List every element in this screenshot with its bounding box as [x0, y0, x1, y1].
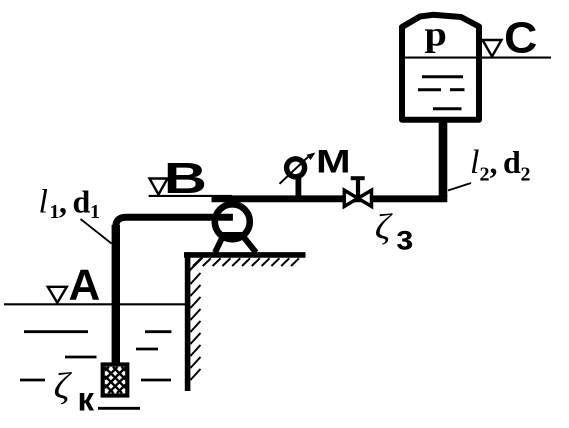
svg-text:к: к	[78, 381, 95, 418]
tank outlet vertical pipe l2	[439, 121, 448, 197]
ground hatching	[193, 258, 299, 266]
water level A line	[4, 303, 185, 305]
wall corner hatch	[188, 258, 203, 273]
label zeta_k	[54, 366, 95, 417]
svg-text:1: 1	[90, 201, 100, 223]
valve right triangle	[358, 190, 372, 206]
gauge needle arrowhead	[307, 153, 316, 161]
svg-text:C: C	[504, 12, 537, 62]
main horizontal pipe	[212, 195, 448, 202]
reservoir water dashes	[20, 332, 171, 409]
leader line to label l1,d1	[81, 219, 112, 244]
ground line	[184, 252, 306, 258]
water level marker C (triangle)	[483, 40, 502, 57]
svg-text:M: M	[316, 143, 351, 179]
wall	[185, 252, 191, 391]
tank body	[402, 15, 479, 120]
svg-text:p: p	[425, 15, 447, 54]
strainer (foot valve) box	[103, 365, 128, 396]
valve stem	[356, 179, 360, 198]
svg-text:d: d	[503, 144, 521, 180]
pump circle	[215, 204, 250, 239]
strainer crosshatch	[105, 367, 126, 393]
gauge M circle	[287, 159, 305, 177]
svg-text:A: A	[69, 261, 101, 310]
valve left triangle	[344, 190, 358, 206]
water level marker B (triangle)	[150, 179, 168, 195]
svg-text:,: ,	[59, 184, 67, 220]
wall hatching	[190, 273, 200, 380]
water level marker A (triangle)	[48, 287, 67, 303]
gauge stem	[295, 177, 301, 196]
svg-text:2: 2	[480, 164, 490, 186]
pump support legs	[215, 235, 256, 253]
label l2, d2	[470, 144, 531, 186]
water level B line	[149, 195, 232, 197]
svg-text:2: 2	[521, 164, 531, 186]
gauge needle	[280, 157, 309, 184]
svg-text:B: B	[164, 154, 207, 203]
water dashes inside tank	[418, 77, 465, 109]
svg-text:з: з	[396, 219, 413, 258]
valve handle T-bar	[351, 176, 365, 180]
svg-text:ζ: ζ	[54, 366, 73, 406]
water surface line C	[403, 57, 551, 59]
svg-text:1: 1	[50, 201, 60, 223]
svg-text:ζ: ζ	[375, 208, 394, 247]
label l1, d1	[39, 184, 101, 224]
svg-text:d: d	[73, 184, 91, 220]
svg-text:l: l	[470, 144, 479, 181]
svg-text:,: ,	[490, 144, 498, 180]
label zeta_3	[375, 208, 414, 258]
suction pipe horizontal run	[116, 217, 233, 227]
leader line to label l2,d2	[448, 183, 471, 191]
suction pipe vertical run l1	[112, 225, 120, 363]
svg-text:l: l	[39, 184, 48, 221]
